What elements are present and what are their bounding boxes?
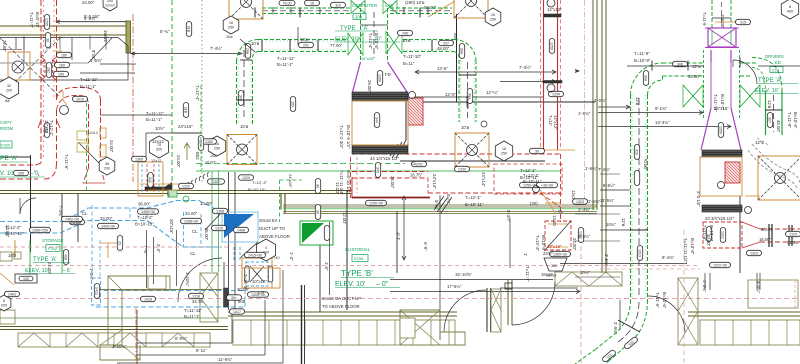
svg-text:V. 10’: V. 10’ (0, 171, 15, 177)
svg-text:30: 30 (45, 38, 49, 42)
svg-text:210: 210 (772, 68, 779, 73)
svg-text:4’-9": 4’-9" (396, 231, 401, 240)
orange diffuser 3 (227, 135, 257, 165)
green riser 16x16 (360, 8, 362, 62)
magenta funnel center (353, 62, 361, 92)
svg-text:T=12'-1": T=12'-1" (520, 168, 537, 173)
svg-text:ELEV. 10’: ELEV. 10’ (755, 88, 779, 94)
svg-text:24"x16": 24"x16" (178, 124, 193, 129)
svg-text:ELEV. 10’: ELEV. 10’ (335, 37, 359, 43)
door arc drivers ed (733, 60, 757, 84)
svg-text:TYPE ’A’: TYPE ’A’ (758, 78, 782, 84)
grille right2 (702, 205, 742, 212)
black bar blue assembly (224, 288, 229, 307)
svg-text:T=11'-9": T=11'-9" (787, 112, 792, 128)
green duct elbow tl (237, 40, 259, 62)
svg-text:ROOM: ROOM (0, 126, 14, 131)
svg-text:10'ø: 10'ø (240, 124, 249, 129)
svg-text:12'ø: 12'ø (621, 218, 626, 227)
svg-text:B=8'-10 1/4": B=8'-10 1/4" (346, 170, 351, 194)
casework 200-230 diag (200, 273, 218, 322)
svg-text:16x12: 16x12 (103, 30, 108, 42)
svg-text:1320: 1320 (242, 176, 250, 180)
svg-text:200: 200 (1, 304, 7, 308)
svg-text:B=10'-9": B=10'-9" (634, 58, 651, 63)
svg-text:265: 265 (18, 172, 24, 176)
svg-text:297: 297 (443, 42, 449, 46)
wall door jamb x510 (507, 280, 509, 325)
wall corridor south y210 (283, 204, 597, 206)
svg-text:T=12'-1": T=12'-1" (49, 120, 54, 137)
flex duct curve2 (757, 138, 770, 146)
svg-text:12'ø: 12'ø (767, 100, 772, 109)
svg-text:40.00": 40.00" (776, 120, 781, 133)
svg-text:6'-9¾": 6'-9¾" (175, 336, 188, 341)
wall horizontal y157 left (0, 156, 30, 158)
svg-text:+30+30: +30+30 (541, 184, 553, 188)
green left room lines (29, 240, 31, 273)
svg-text:24.00": 24.00" (176, 155, 181, 168)
svg-text:13'-6": 13'-6" (437, 66, 448, 71)
svg-text:T=12’-2": T=12’-2" (252, 180, 268, 185)
svg-text:1322: 1322 (720, 231, 724, 239)
svg-text:L 6: L 6 (258, 290, 264, 295)
svg-text:12x1: 12x1 (571, 190, 576, 200)
svg-text:CL: CL (558, 209, 564, 214)
red duct left vertical (40, 0, 42, 163)
wall bottom left y327 (0, 326, 228, 328)
wall horizontal y102 (410, 101, 595, 103)
svg-text:7'-4¾": 7'-4¾" (598, 167, 611, 172)
blue riser box2 (green) (300, 221, 333, 245)
svg-text:4: 4 (265, 246, 267, 250)
svg-text:24.00": 24.00" (572, 238, 577, 251)
svg-text:B=10'-9": B=10'-9" (541, 235, 546, 252)
green duct sweep bottom exit (596, 300, 631, 349)
red transition right (742, 222, 760, 248)
orange diffuser 4 (455, 133, 489, 167)
green duct run3 y40 x400 (403, 39, 454, 41)
green dashed line x86 (86, 103, 88, 190)
svg-text:35.00": 35.00" (204, 228, 209, 241)
stadium tags (57, 52, 72, 57)
svg-text:T=11'-9": T=11'-9" (634, 51, 650, 56)
svg-text:2'-9¾": 2'-9¾" (613, 322, 618, 335)
hex 16-250 c (485, 8, 501, 26)
svg-text:1'-3¼": 1'-3¼" (89, 268, 94, 281)
svg-text:F200: F200 (1, 143, 11, 148)
svg-text:4'-0¼": 4'-0¼" (756, 281, 761, 294)
wall corridor jog (280, 194, 282, 210)
blue riser box (222, 212, 258, 242)
svg-text:29: 29 (117, 241, 121, 245)
green duct elbow3 (631, 63, 663, 95)
wall bottom right y313 (228, 311, 457, 313)
truss band bottom-left (18, 333, 210, 347)
svg-text:24"x14": 24"x14" (432, 174, 437, 189)
svg-text:16.00": 16.00" (205, 161, 217, 165)
svg-text:31B: 31B (186, 26, 190, 33)
svg-text:108.00": 108.00" (720, 14, 725, 29)
svg-text:1398+30: 1398+30 (184, 220, 198, 224)
red duct right branch flare (83, 168, 105, 183)
top run ticks (272, 7, 274, 15)
wall vertical x320 (319, 245, 321, 312)
svg-text:T=11'-11": T=11'-11" (277, 56, 295, 61)
svg-text:CL: CL (190, 251, 196, 256)
svg-text:24.00": 24.00" (47, 262, 52, 275)
svg-text:COMPUTER: COMPUTER (352, 3, 377, 8)
red duct branch arc (57, 88, 101, 101)
svg-text:344: 344 (374, 117, 378, 123)
green riser2 top right (711, 0, 713, 28)
svg-text:33 3/4"x15 1/2": 33 3/4"x15 1/2" (705, 216, 735, 221)
svg-text:1'-5¾": 1'-5¾" (90, 58, 103, 63)
svg-text:(290) 10'ø: (290) 10'ø (405, 0, 425, 5)
magenta top tick (705, 27, 739, 29)
svg-text:33.00": 33.00" (100, 216, 113, 221)
green duct exit band (575, 349, 596, 364)
svg-text:44 1/4"x15 1/2": 44 1/4"x15 1/2" (370, 156, 400, 161)
svg-text:808: 808 (238, 299, 246, 304)
svg-text:1'-6¾": 1'-6¾" (578, 111, 591, 116)
svg-text:B=10'-6": B=10'-6" (662, 292, 667, 309)
svg-text:26.00": 26.00" (70, 220, 83, 225)
svg-text:250: 250 (214, 147, 220, 151)
tag 76.00 (279, 1, 295, 6)
svg-text:PE ’A’: PE ’A’ (0, 155, 18, 162)
orange diffuser 5 (758, 156, 800, 200)
blue lower riser left (92, 278, 101, 305)
black bar y80 x545 (543, 81, 562, 84)
red dashdot vertical x585 (584, 0, 586, 210)
svg-text:T=11'-6": T=11'-6" (655, 292, 660, 308)
svg-text:•10: •10 (274, 256, 280, 260)
wall line y67 right (758, 65, 800, 67)
svg-text:B=10'-9": B=10'-9" (793, 112, 798, 129)
stad 1355b (208, 179, 225, 184)
red runout diag (540, 193, 560, 207)
svg-text:1417: 1417 (233, 310, 241, 314)
flow arrow B02 (184, 143, 190, 160)
svg-text:22½": 22½" (543, 251, 553, 256)
svg-text:26.00": 26.00" (367, 80, 372, 93)
svg-text:16: 16 (502, 147, 506, 151)
svg-text:76.00: 76.00 (283, 2, 292, 6)
svg-text:30ø: 30ø (459, 48, 463, 55)
svg-text:28ø: 28ø (245, 48, 249, 55)
svg-text:10'ø: 10'ø (251, 41, 260, 46)
blue assembly bottom (242, 258, 272, 288)
wall left room verticals (30, 155, 32, 252)
svg-text:TYPE ’A’: TYPE ’A’ (33, 257, 57, 263)
svg-text:– 6’: – 6’ (62, 268, 71, 274)
svg-text:T=11'-11": T=11'-11" (184, 308, 202, 313)
svg-text:1350: 1350 (205, 140, 213, 144)
green duct centerline (243, 50, 245, 120)
hex 16-250 a (223, 16, 239, 34)
svg-text:1250+30: 1250+30 (369, 202, 383, 206)
svg-text:– 0”: – 0” (376, 281, 389, 288)
green duct vertical4 x765-782 (765, 91, 767, 135)
svg-text:8: 8 (789, 5, 791, 9)
green duct joints (254, 8, 256, 18)
green duct vertical2 x457-477 (458, 60, 460, 122)
svg-text:160: 160 (58, 73, 64, 77)
svg-text:CL: CL (82, 211, 88, 216)
hex 8-400 (781, 0, 798, 19)
svg-text:1416: 1416 (144, 298, 152, 302)
svg-text:DUCT UP TO: DUCT UP TO (259, 226, 286, 231)
faint pink dash y298 (0, 298, 800, 300)
svg-text:13'-4¾": 13'-4¾" (655, 120, 670, 125)
svg-text:16.00": 16.00" (759, 237, 772, 242)
svg-text:24"x14": 24"x14" (481, 172, 486, 187)
svg-text:16.75": 16.75" (410, 173, 423, 178)
svg-text:1'-3¼": 1'-3¼" (702, 280, 707, 293)
svg-text:208: 208 (355, 15, 363, 20)
svg-text:24.00": 24.00" (5, 225, 10, 238)
casework bench bottom center (400, 310, 465, 345)
wall vertical x303 (301, 285, 303, 364)
svg-text:T=12'-1": T=12'-1" (465, 195, 482, 200)
svg-text:307: 307 (767, 117, 771, 123)
svg-text:CUSTODIAL: CUSTODIAL (345, 247, 371, 252)
svg-text:31B: 31B (183, 107, 187, 114)
svg-text:30: 30 (315, 210, 319, 214)
svg-text:2'-5¾": 2'-5¾" (604, 254, 609, 267)
svg-text:12.00": 12.00" (335, 182, 340, 195)
door arc bottom center-left (178, 258, 222, 302)
svg-text:250: 250 (490, 18, 496, 22)
svg-text:TO ABOVE FLOOR: TO ABOVE FLOOR (322, 304, 360, 309)
svg-text:2'-3": 2'-3" (156, 244, 161, 253)
dimension lines (598, 106, 630, 108)
svg-text:B=10’-10": B=10’-10" (248, 187, 266, 192)
svg-text:15'-10⅝": 15'-10⅝" (455, 272, 472, 277)
wall vertical x740 right room (739, 196, 741, 273)
orange hex marks left (100, 128, 106, 138)
svg-text:7'-3¾": 7'-3¾" (58, 205, 63, 218)
svg-text:B=10'-11": B=10'-11" (465, 202, 484, 207)
green duct run2 y40-52 (258, 39, 348, 41)
svg-text:250: 250 (228, 26, 234, 30)
grille center top (352, 92, 408, 101)
svg-text:1409+30: 1409+30 (141, 210, 155, 214)
svg-text:345: 345 (375, 167, 379, 173)
svg-text:5'-0 3/4": 5'-0 3/4" (84, 14, 100, 19)
blue lower band (96, 290, 245, 292)
hex 75-325 (150, 136, 169, 158)
green duct vertical x236-253 (236, 60, 238, 124)
svg-text:B=11'-1": B=11'-1" (146, 117, 162, 122)
orange box right (700, 157, 742, 196)
green casework line x202 (201, 0, 203, 182)
hatch x445 (434, 196, 452, 213)
casework row bottom (233, 320, 455, 345)
svg-text:T=11'-11 1/2": T=11'-11 1/2" (683, 238, 688, 263)
svg-text:17'-5¼": 17'-5¼" (447, 284, 462, 289)
svg-text:10"x10": 10"x10" (252, 279, 267, 284)
hex 16-250 d (495, 141, 512, 161)
green floor line y318 left (0, 317, 228, 319)
svg-text:B=11'-1": B=11'-1" (80, 84, 96, 89)
svg-text:1254: 1254 (552, 93, 560, 97)
svg-text:8'-5½": 8'-5½" (603, 183, 616, 188)
svg-text:1412: 1412 (94, 287, 98, 295)
svg-text:T=11'-7": T=11'-7" (29, 12, 34, 28)
svg-text:16"x16": 16"x16" (361, 56, 375, 61)
svg-text:7'-4½": 7'-4½" (210, 46, 223, 51)
svg-text:12"x12": 12"x12" (547, 7, 562, 12)
svg-text:31.25: 31.25 (787, 240, 798, 245)
svg-text:T=11'-11": T=11'-11" (80, 77, 98, 82)
svg-text:T=12': T=12' (548, 115, 553, 126)
svg-text:77.00": 77.00" (330, 43, 343, 48)
svg-text:B=10'-11": B=10'-11" (520, 175, 539, 180)
svg-text:1369+250: 1369+250 (32, 229, 48, 233)
wall vertical x347 (346, 190, 348, 310)
flex duct curve (748, 150, 798, 190)
svg-text:1': 1' (523, 253, 528, 256)
svg-text:4'-0¾": 4'-0¾" (594, 98, 607, 103)
red duct left bottom turn (0, 163, 41, 165)
svg-text:10'ø: 10'ø (300, 37, 309, 42)
green hatch cap x172 (168, 190, 177, 197)
svg-text:E206: E206 (354, 256, 364, 261)
svg-text:8: 8 (3, 299, 5, 303)
svg-text:342: 342 (148, 177, 152, 183)
red hatched box FD1 (408, 98, 423, 125)
svg-text:T=12'-2": T=12'-2" (137, 215, 154, 220)
svg-text:CL: CL (411, 161, 417, 166)
svg-text:1322+30: 1322+30 (713, 264, 727, 268)
svg-text:1313: 1313 (637, 249, 641, 257)
svg-text:– 0: – 0 (30, 171, 39, 177)
svg-text:296: 296 (402, 32, 408, 36)
svg-text:16x16: 16x16 (541, 272, 553, 277)
hex 4-200 (257, 239, 276, 261)
svg-text:5'-¾": 5'-¾" (160, 29, 170, 34)
svg-text:110: 110 (335, 4, 341, 8)
red band far right (760, 228, 800, 230)
magenta box top right (708, 28, 736, 47)
svg-text:ELEV. 10’: ELEV. 10’ (335, 281, 366, 288)
svg-text:1'-6": 1'-6" (324, 262, 329, 271)
flex chevrons (179, 186, 181, 191)
wall horizontal y161 (400, 160, 545, 162)
svg-text:16: 16 (229, 21, 233, 25)
svg-text:10¾": 10¾" (580, 270, 590, 275)
svg-text:18"x18": 18"x18" (547, 244, 562, 249)
svg-text:FD: FD (385, 72, 391, 77)
magenta riser right (710, 50, 712, 62)
svg-text:1'-3": 1'-3" (289, 252, 294, 261)
room partition lines top-left (0, 38, 128, 81)
svg-text:30ø: 30ø (643, 75, 647, 82)
svg-text:T=12'-3": T=12'-3" (535, 235, 540, 252)
red duct rect top (352, 153, 561, 155)
black ticks on red band (768, 224, 770, 247)
pink dashed box right room (748, 280, 798, 308)
svg-text:30: 30 (315, 184, 319, 188)
svg-text:315: 315 (740, 21, 746, 25)
svg-text:12'-0": 12'-0" (445, 92, 456, 97)
svg-text:COPY: COPY (0, 120, 12, 125)
svg-text:250: 250 (501, 152, 507, 156)
svg-text:12"x12: 12"x12 (44, 120, 49, 134)
svg-text:5'-¾": 5'-¾" (434, 200, 439, 210)
wall horizontal y196 right (745, 195, 760, 197)
svg-text:5'-½": 5'-½" (446, 194, 451, 204)
svg-text:1250: 1250 (549, 42, 553, 50)
wall vertical x406 (405, 91, 407, 140)
svg-text:30+: 30+ (231, 296, 237, 300)
red crossing marks (78, 142, 99, 163)
svg-text:12'ø: 12'ø (635, 97, 640, 106)
svg-text:10½": 10½" (155, 126, 165, 131)
svg-text:B=10'-8": B=10'-8" (374, 33, 379, 50)
svg-text:B=8'-11": B=8'-11" (35, 12, 40, 28)
svg-text:1360+30: 1360+30 (553, 253, 567, 257)
svg-text:16: 16 (310, 2, 314, 6)
svg-text:12"x12": 12"x12" (553, 115, 558, 130)
wall vertical pier x126 (126, 21, 131, 53)
svg-text:5'-3½": 5'-3½" (506, 210, 511, 223)
blue vertical connector x92-100 (91, 205, 93, 278)
svg-text:282: 282 (46, 67, 50, 73)
grille right (702, 150, 742, 157)
svg-text:ELEV. 10’: ELEV. 10’ (25, 268, 49, 274)
svg-text:34.75: 34.75 (192, 299, 203, 304)
svg-text:36.00": 36.00" (390, 176, 395, 189)
svg-text:8/0.25: 8/0.25 (761, 227, 774, 232)
custodial dim x330 (329, 222, 331, 295)
orange box center (352, 101, 408, 145)
svg-text:20x16 EA: 20x16 EA (259, 218, 278, 223)
svg-text:1'-6¼": 1'-6¼" (585, 166, 598, 171)
red duct top vertical x352 (350, 157, 352, 198)
svg-text:1'-4¾": 1'-4¾" (578, 207, 591, 212)
red duct main vertical x545-560 (543, 0, 545, 150)
red duct dashed y193 (428, 192, 561, 194)
svg-text:163: 163 (290, 101, 294, 107)
svg-text:24"x16": 24"x16" (288, 174, 293, 188)
orange box left small (138, 162, 163, 196)
svg-text:10.00": 10.00" (200, 201, 213, 206)
svg-text:13.00: 13.00 (552, 215, 557, 226)
red vertical wall x352 upper (351, 177, 353, 198)
small circles (547, 0, 555, 7)
truss band mid-bottom (555, 272, 622, 286)
svg-text:B=11'-1": B=11'-1" (277, 62, 293, 67)
casework small left (0, 252, 12, 261)
svg-text:38: 38 (105, 162, 109, 166)
svg-text:36.00": 36.00" (138, 202, 151, 207)
svg-text:6'-9": 6'-9" (423, 242, 428, 251)
wall right olive vertical x593 (592, 0, 594, 210)
svg-text:8'-4¾": 8'-4¾" (662, 255, 675, 260)
svg-text:20"x16": 20"x16" (169, 219, 174, 234)
casework left L (100, 276, 170, 360)
svg-text:7'-3½": 7'-3½" (519, 65, 532, 70)
svg-text:408: 408 (63, 254, 67, 260)
svg-text:1403: 1403 (8, 293, 16, 297)
svg-text:1350: 1350 (377, 74, 381, 82)
hex 32-200 (0, 77, 19, 99)
hex 8-200 bl (0, 295, 11, 311)
wall vertical x457 (456, 14, 458, 102)
